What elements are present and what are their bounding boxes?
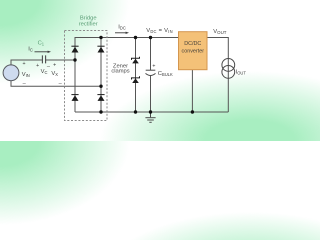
wire Cbulk branch xyxy=(150,37,152,112)
wire source return xyxy=(11,81,101,87)
ac source V_IN xyxy=(3,65,19,81)
svg-text:VX: VX xyxy=(51,71,58,77)
wire bridge right leg xyxy=(100,37,102,112)
node: bridge input left xyxy=(73,58,76,61)
svg-text:+: + xyxy=(22,61,25,67)
svg-text:C1: C1 xyxy=(38,40,45,46)
svg-text:–: – xyxy=(59,80,63,86)
svg-text:VC: VC xyxy=(41,69,48,75)
ground xyxy=(145,112,155,122)
wire zener branch xyxy=(135,37,137,112)
svg-text:IOUT: IOUT xyxy=(236,69,247,75)
diode D4 lower-right xyxy=(97,94,104,101)
capacitor C1 xyxy=(42,55,45,63)
wire bottom rail xyxy=(75,111,228,113)
node: zener top xyxy=(134,36,137,39)
node: bridge input right xyxy=(99,85,102,88)
svg-text:+: + xyxy=(36,63,39,69)
zener Z2 xyxy=(132,76,140,83)
node: bridge bottom right xyxy=(99,110,102,113)
svg-text:VOUT: VOUT xyxy=(213,29,226,35)
wire bridge left leg xyxy=(74,37,76,112)
DC/DC converter U1 xyxy=(179,32,208,70)
svg-text:–: – xyxy=(47,64,51,70)
svg-text:CBULK: CBULK xyxy=(158,71,173,77)
capacitor C_BULK xyxy=(146,70,156,75)
current source I_OUT xyxy=(222,59,235,79)
node: DC/DC return xyxy=(191,110,194,113)
node: bridge top right xyxy=(99,36,102,39)
diode D2 upper-right xyxy=(97,46,104,53)
svg-text:VIN: VIN xyxy=(22,72,30,78)
svg-text:IC: IC xyxy=(28,47,33,53)
wire input top from source to C1 xyxy=(11,60,42,65)
svg-text:clamps: clamps xyxy=(111,69,129,75)
diode D3 lower-left xyxy=(71,94,78,101)
node: Cbulk bottom xyxy=(149,110,152,113)
bridge rectifier dashed box xyxy=(65,31,108,121)
svg-text:VDC = VIN: VDC = VIN xyxy=(146,28,173,34)
wire Vout from DC/DC to load xyxy=(207,38,228,113)
wire bridge top xyxy=(75,37,101,39)
svg-text:converter: converter xyxy=(182,49,205,55)
node: Cbulk top xyxy=(149,36,152,39)
svg-text:DC/DC: DC/DC xyxy=(184,41,201,47)
svg-text:+: + xyxy=(152,64,155,70)
zener Z1 xyxy=(132,57,140,64)
wire top rail to DC/DC xyxy=(101,37,179,39)
wire DC/DC return xyxy=(191,70,193,112)
svg-text:+: + xyxy=(53,62,56,68)
node: zener bottom xyxy=(134,110,137,113)
wire C1 to bridge left leg xyxy=(46,59,75,61)
svg-text:IDC: IDC xyxy=(118,24,126,30)
diode D1 upper-left xyxy=(71,46,78,53)
svg-text:rectifier: rectifier xyxy=(79,21,98,27)
